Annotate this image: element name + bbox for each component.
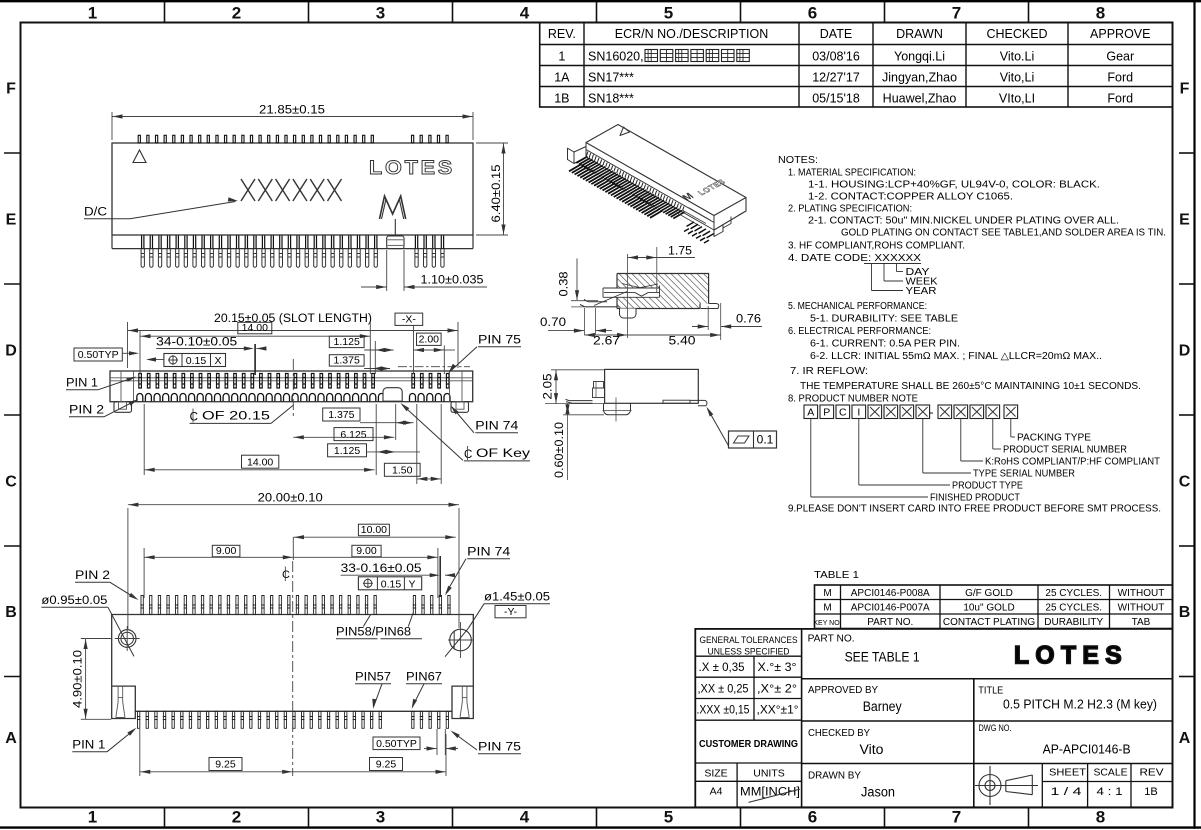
- svg-text:ø0.95±0.05: ø0.95±0.05: [41, 595, 107, 607]
- svg-text:34-0.10±0.05: 34-0.10±0.05: [156, 337, 237, 349]
- svg-text:6: 6: [808, 808, 817, 827]
- svg-text:LOTES: LOTES: [369, 157, 455, 179]
- svg-text:21.85±0.15: 21.85±0.15: [259, 105, 325, 117]
- svg-text:REV.: REV.: [548, 27, 576, 41]
- svg-text:7: 7: [952, 808, 961, 827]
- svg-text:CONTACT PLATING: CONTACT PLATING: [943, 617, 1035, 628]
- svg-text:5-1. DURABILITY: SEE TABLE: 5-1. DURABILITY: SEE TABLE: [810, 314, 959, 325]
- svg-text:2: 2: [232, 4, 241, 23]
- svg-text:1.375: 1.375: [334, 354, 360, 366]
- svg-text:A: A: [5, 730, 17, 747]
- svg-text:2-1. CONTACT: 50u" MIN.NICK: 2-1. CONTACT: 50u" MIN.NICKEL UNDER PLAT…: [808, 216, 1119, 227]
- svg-text:KEY NO.: KEY NO.: [813, 620, 841, 627]
- svg-text:REV: REV: [1140, 767, 1164, 779]
- svg-text:ø1.45±0.05: ø1.45±0.05: [484, 592, 550, 604]
- svg-text:THE TEMPERATURE SHALL BE 2: THE TEMPERATURE SHALL BE 260±5°C MAINTAI…: [800, 381, 1141, 392]
- svg-text:SEE TABLE 1: SEE TABLE 1: [845, 650, 920, 665]
- svg-text:TYPE SERIAL NUMBER: TYPE SERIAL NUMBER: [973, 469, 1075, 480]
- svg-text:Barney: Barney: [863, 699, 902, 714]
- svg-text:PIN 1: PIN 1: [66, 378, 98, 390]
- svg-text:1B: 1B: [1144, 786, 1157, 798]
- svg-text:C: C: [190, 412, 198, 424]
- svg-text:Vito: Vito: [860, 742, 884, 757]
- svg-text:E: E: [1179, 212, 1190, 229]
- svg-text:C: C: [839, 407, 847, 419]
- svg-text:1-1. HOUSING:LCP+40%GF, UL94: 1-1. HOUSING:LCP+40%GF, UL94V-0, COLOR: …: [808, 180, 1100, 191]
- svg-text:ECR/N NO./DESCRIPTION: ECR/N NO./DESCRIPTION: [615, 27, 769, 41]
- svg-text:Yongqi.Li: Yongqi.Li: [894, 49, 945, 63]
- svg-text:Ford: Ford: [1107, 70, 1133, 84]
- svg-text:UNLESS SPECIFIED: UNLESS SPECIFIED: [708, 647, 790, 657]
- svg-text:1B: 1B: [554, 91, 569, 105]
- svg-text:SCALE: SCALE: [1094, 767, 1128, 779]
- svg-text:1.375: 1.375: [328, 409, 354, 421]
- svg-text:4. DATE CODE: XXXXXX: 4. DATE CODE: XXXXXX: [788, 253, 922, 264]
- svg-text:GENERAL TOLERANCES: GENERAL TOLERANCES: [700, 635, 798, 645]
- svg-text:1. MATERIAL SPECIFICATION:: 1. MATERIAL SPECIFICATION:: [788, 168, 916, 179]
- svg-text:YEAR: YEAR: [906, 286, 937, 297]
- svg-text:14.00: 14.00: [242, 322, 268, 334]
- svg-text:10.00: 10.00: [361, 524, 387, 536]
- svg-text:Vito,Li: Vito,Li: [1000, 70, 1035, 84]
- svg-text:0.70: 0.70: [540, 317, 566, 329]
- svg-text:Vito.Li: Vito.Li: [1000, 49, 1035, 63]
- svg-text:1A: 1A: [554, 70, 570, 84]
- svg-text:5: 5: [664, 4, 673, 23]
- svg-text:AP-APCI0146-B: AP-APCI0146-B: [1043, 742, 1131, 757]
- svg-text:C: C: [5, 474, 17, 491]
- svg-text:TABLE 1: TABLE 1: [814, 569, 859, 581]
- svg-text:DRAWN: DRAWN: [896, 27, 943, 41]
- svg-text:SN17***: SN17***: [588, 70, 634, 84]
- svg-text:Jason: Jason: [861, 785, 895, 800]
- svg-text:-Y-: -Y-: [504, 606, 518, 618]
- svg-text:4: 4: [520, 4, 530, 23]
- svg-text:WITHOUT: WITHOUT: [1118, 588, 1165, 599]
- svg-text:TAB: TAB: [1132, 617, 1151, 628]
- svg-text:5. MECHANICAL PERFORMANCE:: 5. MECHANICAL PERFORMANCE:: [788, 301, 927, 312]
- svg-text:2.05: 2.05: [543, 374, 555, 400]
- svg-text:1.125: 1.125: [334, 336, 360, 348]
- svg-text:F: F: [6, 81, 16, 98]
- svg-text:14.00: 14.00: [247, 456, 273, 468]
- svg-text:LOTES: LOTES: [1014, 642, 1128, 670]
- svg-text:9.00: 9.00: [356, 545, 377, 557]
- svg-text:9.00: 9.00: [216, 545, 237, 557]
- svg-text:0.15: 0.15: [381, 578, 402, 590]
- svg-text:0.76: 0.76: [736, 314, 761, 326]
- svg-text:0.60±0.10: 0.60±0.10: [554, 422, 566, 478]
- svg-text:2: 2: [232, 808, 241, 827]
- svg-text:Gear: Gear: [1106, 49, 1134, 63]
- svg-text:APPROVE: APPROVE: [1090, 27, 1150, 41]
- svg-text:1-2. CONTACT:COPPER ALLOY C: 1-2. CONTACT:COPPER ALLOY C1065.: [808, 192, 1013, 203]
- svg-text:C: C: [1179, 474, 1191, 491]
- svg-text:0.1: 0.1: [757, 433, 774, 447]
- svg-text:X: X: [214, 355, 221, 367]
- svg-text:6-2. LLCR: INITIAL 55mΩ MA: 6-2. LLCR: INITIAL 55mΩ MAX. ; FINAL △LL…: [810, 351, 1102, 362]
- svg-text:F: F: [1180, 81, 1190, 98]
- svg-text:0.50TYP: 0.50TYP: [78, 349, 119, 361]
- svg-text:X.°± 3°: X.°± 3°: [758, 660, 797, 674]
- svg-text:A: A: [1179, 730, 1191, 747]
- svg-text:K:RoHS COMPLIANT/P:HF COMPLI: K:RoHS COMPLIANT/P:HF COMPLIANT: [985, 457, 1160, 468]
- svg-text:VIto,LI: VIto,LI: [999, 91, 1035, 105]
- svg-text:GOLD PLATING ON CONTACT SE: GOLD PLATING ON CONTACT SEE TABLE1,AND S…: [841, 228, 1166, 239]
- svg-text:PIN 75: PIN 75: [478, 742, 521, 754]
- svg-text:2.00: 2.00: [419, 334, 440, 346]
- svg-text:6. ELECTRICAL PERFORMANCE:: 6. ELECTRICAL PERFORMANCE:: [788, 326, 931, 337]
- svg-text:NOTES:: NOTES:: [778, 155, 818, 166]
- svg-text:1: 1: [88, 4, 97, 23]
- svg-text:PIN 75: PIN 75: [478, 335, 521, 347]
- svg-text:D/C: D/C: [84, 207, 107, 219]
- svg-text:CHECKED BY: CHECKED BY: [808, 727, 870, 739]
- svg-text:7. IR REFLOW:: 7. IR REFLOW:: [790, 366, 868, 377]
- svg-text:TITLE: TITLE: [978, 685, 1003, 697]
- svg-text:4 : 1: 4 : 1: [1097, 786, 1123, 798]
- svg-text:1.50: 1.50: [392, 465, 413, 477]
- svg-text:SN18***: SN18***: [588, 91, 634, 105]
- svg-text:6.40±0.15: 6.40±0.15: [491, 165, 503, 223]
- svg-text:8: 8: [1096, 4, 1105, 23]
- svg-text:Ford: Ford: [1107, 91, 1133, 105]
- svg-text:1: 1: [558, 49, 565, 63]
- svg-text:PART NO.: PART NO.: [808, 633, 855, 645]
- svg-text:3: 3: [376, 808, 385, 827]
- svg-text:M: M: [823, 603, 831, 614]
- svg-text:1.10±0.035: 1.10±0.035: [421, 275, 484, 287]
- svg-text:SN16020,: SN16020,: [588, 49, 644, 63]
- svg-text:B: B: [1179, 604, 1191, 621]
- svg-text:APCI0146-P007A: APCI0146-P007A: [851, 603, 930, 614]
- svg-text:1.75: 1.75: [668, 246, 692, 258]
- svg-text:7: 7: [952, 4, 961, 23]
- svg-text:FINISHED PRODUCT: FINISHED PRODUCT: [930, 493, 1020, 504]
- svg-text:8: 8: [1096, 808, 1105, 827]
- svg-text:.XXX ±0,15: .XXX ±0,15: [697, 703, 750, 717]
- svg-text:6: 6: [808, 4, 817, 23]
- svg-text:33-0.16±0.05: 33-0.16±0.05: [341, 563, 422, 575]
- svg-text:,X°± 2°: ,X°± 2°: [757, 682, 797, 696]
- svg-text:5.40: 5.40: [669, 336, 696, 348]
- svg-text:PIN 1: PIN 1: [72, 740, 105, 752]
- svg-text:DURABILITY: DURABILITY: [1044, 617, 1103, 628]
- svg-text:PIN 2: PIN 2: [75, 570, 110, 582]
- svg-text:9.25: 9.25: [215, 759, 236, 771]
- svg-text:PIN 74: PIN 74: [467, 547, 511, 559]
- svg-text:12/27'17: 12/27'17: [812, 70, 860, 84]
- svg-text:3: 3: [376, 4, 385, 23]
- svg-text:0.15: 0.15: [186, 355, 207, 367]
- svg-text:0.38: 0.38: [559, 272, 571, 297]
- svg-text:C: C: [282, 569, 290, 581]
- svg-text:Jingyan,Zhao: Jingyan,Zhao: [882, 70, 957, 84]
- svg-text:1.125: 1.125: [334, 445, 360, 457]
- svg-text:PACKING TYPE: PACKING TYPE: [1017, 433, 1091, 444]
- svg-text:25 CYCLES.: 25 CYCLES.: [1045, 603, 1102, 614]
- svg-text:D: D: [5, 343, 17, 360]
- svg-text:1 / 4: 1 / 4: [1051, 786, 1082, 798]
- svg-text:SIZE: SIZE: [704, 768, 727, 780]
- svg-text:CUSTOMER DRAWING: CUSTOMER DRAWING: [699, 738, 798, 750]
- svg-text:D: D: [1179, 343, 1191, 360]
- svg-text:PIN58/PIN68: PIN58/PIN68: [336, 627, 411, 639]
- svg-text:.X ± 0,35: .X ± 0,35: [699, 660, 745, 674]
- svg-text:OF 20.15: OF 20.15: [202, 411, 270, 423]
- svg-text:A4: A4: [710, 786, 723, 798]
- svg-text:UNITS: UNITS: [753, 768, 785, 780]
- svg-text:PRODUCT TYPE: PRODUCT TYPE: [952, 481, 1023, 492]
- svg-text:PIN57: PIN57: [355, 672, 391, 684]
- svg-text:,XX ± 0,25: ,XX ± 0,25: [698, 682, 749, 696]
- svg-text:PIN 74: PIN 74: [475, 421, 519, 433]
- svg-text:Huawel,Zhao: Huawel,Zhao: [883, 91, 957, 105]
- svg-text:SHEET: SHEET: [1049, 767, 1087, 779]
- svg-text:G/F GOLD: G/F GOLD: [965, 588, 1013, 599]
- svg-text:,XX°±1°: ,XX°±1°: [757, 703, 799, 717]
- svg-text:A: A: [807, 407, 814, 419]
- svg-text:OF Key: OF Key: [476, 448, 530, 460]
- svg-text:6-1. CURRENT: 0.5A PER PIN: 6-1. CURRENT: 0.5A PER PIN.: [810, 339, 960, 350]
- svg-text:APPROVED BY: APPROVED BY: [808, 684, 878, 696]
- svg-text:DATE: DATE: [820, 27, 852, 41]
- svg-text:03/08'16: 03/08'16: [812, 49, 860, 63]
- svg-text:1: 1: [88, 808, 97, 827]
- svg-text:PART NO.: PART NO.: [867, 617, 913, 628]
- svg-text:5: 5: [664, 808, 673, 827]
- svg-text:8. PRODUCT NUMBER NOTE: 8. PRODUCT NUMBER NOTE: [788, 394, 918, 405]
- svg-text:CHECKED: CHECKED: [986, 27, 1047, 41]
- svg-text:DWG NO.: DWG NO.: [979, 723, 1012, 734]
- svg-text:0.50TYP: 0.50TYP: [376, 738, 417, 750]
- svg-text:PIN67: PIN67: [406, 672, 442, 684]
- svg-text:P: P: [823, 407, 830, 419]
- svg-text:6.125: 6.125: [340, 429, 366, 441]
- svg-text:-: -: [930, 405, 934, 419]
- svg-text:4.90±0.10: 4.90±0.10: [73, 650, 85, 708]
- svg-text:2.67: 2.67: [593, 336, 620, 348]
- svg-text:WITHOUT: WITHOUT: [1118, 603, 1165, 614]
- svg-text:E: E: [6, 212, 17, 229]
- svg-text:PIN 2: PIN 2: [69, 405, 104, 417]
- svg-text:C: C: [464, 449, 472, 461]
- svg-text:05/15'18: 05/15'18: [812, 91, 860, 105]
- svg-text:Y: Y: [408, 578, 415, 590]
- svg-text:20.00±0.10: 20.00±0.10: [258, 493, 323, 505]
- svg-text:4: 4: [520, 808, 530, 827]
- svg-text:M: M: [823, 588, 831, 599]
- svg-text:25 CYCLES.: 25 CYCLES.: [1045, 588, 1102, 599]
- svg-text:9.PLEASE DON'T INSERT CARD: 9.PLEASE DON'T INSERT CARD INTO FREE PRO…: [788, 504, 1161, 515]
- svg-text:B: B: [5, 604, 17, 621]
- svg-text:I: I: [857, 407, 860, 419]
- svg-text:-X-: -X-: [402, 314, 417, 326]
- svg-text:0.5 PITCH M.2 H2.3 (M key): 0.5 PITCH M.2 H2.3 (M key): [1003, 697, 1157, 712]
- svg-text:9.25: 9.25: [376, 759, 397, 771]
- svg-text:PRODUCT SERIAL NUMBER: PRODUCT SERIAL NUMBER: [1003, 445, 1127, 456]
- svg-text:APCI0146-P008A: APCI0146-P008A: [851, 588, 930, 599]
- svg-text:10u" GOLD: 10u" GOLD: [963, 603, 1014, 614]
- svg-text:3. HF COMPLIANT,ROHS COMPLI: 3. HF COMPLIANT,ROHS COMPLIANT.: [788, 241, 965, 252]
- svg-text:DRAWN BY: DRAWN BY: [808, 770, 861, 782]
- svg-text:2. PLATING SPECIFICATION:: 2. PLATING SPECIFICATION:: [788, 204, 912, 215]
